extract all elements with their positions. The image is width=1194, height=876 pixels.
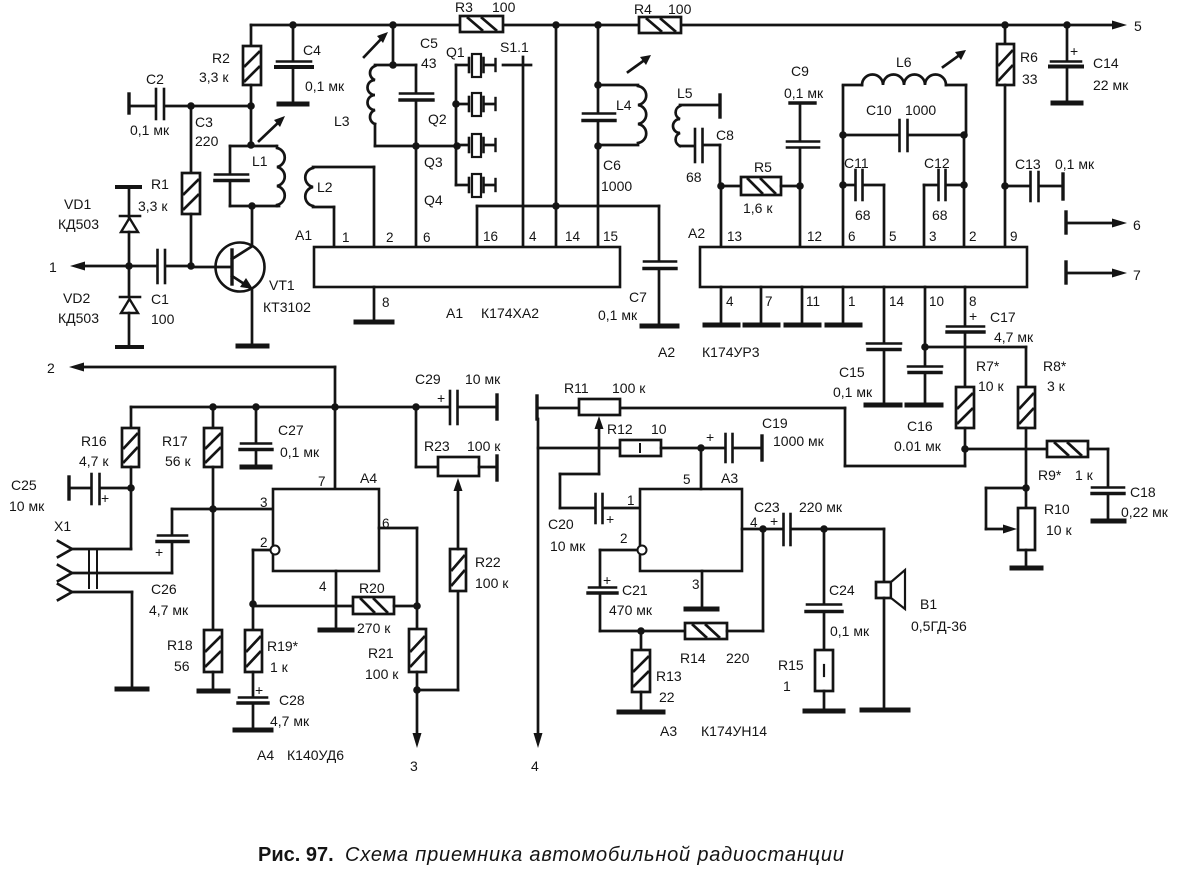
node 1 arrow: [49, 259, 129, 275]
svg-text:КТ3102: КТ3102: [263, 299, 311, 315]
capacitor C8 68: [686, 127, 734, 186]
wire: pin10 node to R8: [925, 346, 1026, 349]
ground under R15: [805, 709, 843, 714]
diode VD1 KD503: [58, 187, 140, 266]
node 7 terminal arrow: [1066, 262, 1141, 283]
resistor R3 100: [455, 0, 516, 32]
crystal bank common wire: [452, 65, 461, 185]
ground under A1 pin 8: [356, 320, 392, 325]
svg-text:4: 4: [529, 229, 537, 244]
svg-text:R6: R6: [1020, 49, 1038, 65]
op-amp/IC A3 K174UN14: [620, 470, 767, 739]
A3 pin3 lead: [701, 571, 704, 608]
capacitor C25 10mk: [9, 474, 131, 514]
A1 pin 8 lead: [374, 287, 390, 321]
svg-text:А3: А3: [660, 723, 677, 739]
junction R7 bottom node: [961, 445, 969, 453]
junction on top rail at C14: [1063, 21, 1071, 29]
svg-text:L4: L4: [616, 97, 632, 113]
svg-text:43: 43: [421, 55, 437, 71]
svg-text:220 мк: 220 мк: [799, 499, 843, 515]
ground under R10: [1012, 566, 1041, 571]
svg-text:6: 6: [423, 230, 431, 245]
junction VD/C1 node: [125, 262, 133, 270]
svg-text:X1: X1: [54, 518, 71, 534]
resistor R1 3,3k (C3 220 label): [138, 106, 219, 266]
svg-text:R21: R21: [368, 645, 394, 661]
capacitor C27 0,1mk: [240, 407, 320, 465]
svg-text:270 к: 270 к: [357, 620, 391, 636]
svg-text:C5: C5: [420, 35, 438, 51]
svg-text:6: 6: [848, 229, 856, 244]
svg-text:0,1 мк: 0,1 мк: [830, 623, 870, 639]
svg-text:B1: B1: [920, 596, 937, 612]
svg-text:3 к: 3 к: [1047, 378, 1066, 394]
svg-text:R3: R3: [455, 0, 473, 15]
capacitor C2 0,1mk with input stub: [129, 71, 251, 138]
svg-text:+: +: [1070, 43, 1078, 59]
svg-text:2: 2: [47, 360, 55, 376]
svg-text:C8: C8: [716, 127, 734, 143]
resistor R14 220: [641, 529, 763, 666]
svg-text:14: 14: [889, 294, 905, 309]
junction R8/R10 node: [1022, 484, 1030, 492]
resistor R22 100k: [417, 478, 509, 690]
svg-text:33: 33: [1022, 71, 1038, 87]
svg-text:4,7 к: 4,7 к: [79, 453, 109, 469]
wire: A3 pin5 lead: [700, 448, 703, 489]
resistor R5 1,6k: [721, 159, 800, 216]
svg-text:A1: A1: [446, 305, 463, 321]
svg-text:0.01 мк: 0.01 мк: [894, 438, 942, 454]
capacitor C18 0,22mk: [1092, 449, 1169, 520]
resistor R9* 1k: [965, 441, 1108, 483]
junction R12/C19/pin5 node: [697, 444, 705, 452]
capacitor C29 10mk: [415, 371, 501, 424]
svg-text:C11: C11: [844, 155, 869, 171]
svg-text:R16: R16: [81, 433, 107, 449]
svg-text:0,5ГД-36: 0,5ГД-36: [911, 618, 967, 634]
svg-text:R23: R23: [424, 438, 450, 454]
wire: A2 pin2 lead: [960, 135, 968, 247]
svg-text:220: 220: [195, 133, 219, 149]
svg-text:9: 9: [1010, 229, 1018, 244]
svg-text:16: 16: [483, 229, 498, 244]
ground under A2 pin4: [705, 323, 738, 328]
svg-text:К174УН14: К174УН14: [701, 723, 767, 739]
junction on top rail at C4: [289, 21, 297, 29]
svg-text:10 к: 10 к: [1046, 522, 1072, 538]
crystal Q4: [424, 174, 496, 208]
svg-text:L3: L3: [334, 113, 350, 129]
svg-text:11: 11: [806, 294, 820, 309]
capacitor C28 4,7mk: [238, 682, 310, 729]
svg-text:+: +: [155, 544, 163, 560]
svg-text:4,7 мк: 4,7 мк: [994, 329, 1034, 345]
wire: A4 pin6 lead: [379, 528, 417, 629]
resistor R6 33: [997, 25, 1038, 186]
svg-text:1: 1: [848, 294, 856, 309]
wire: A4 pin3 lead: [172, 505, 273, 513]
A2 pin7 lead: [760, 287, 763, 324]
resistor R2 3,3k: [199, 25, 261, 105]
svg-text:C1: C1: [151, 291, 169, 307]
ground under speaker: [862, 708, 908, 713]
node 5 arrow terminal: [1112, 21, 1127, 30]
svg-text:C15: C15: [839, 364, 865, 380]
wire: A2 pin12 lead: [799, 186, 802, 247]
svg-text:5: 5: [889, 229, 897, 244]
svg-text:C3: C3: [195, 114, 213, 130]
ground under A3 pin3: [686, 607, 717, 612]
svg-text:R17: R17: [162, 433, 188, 449]
svg-text:R14: R14: [680, 650, 706, 666]
svg-text:Q4: Q4: [424, 192, 443, 208]
svg-text:Q2: Q2: [428, 111, 447, 127]
capacitor C1 100: [129, 250, 195, 327]
svg-text:Q3: Q3: [424, 154, 443, 170]
ground under C27: [242, 465, 270, 470]
svg-text:КД503: КД503: [58, 216, 99, 232]
svg-text:A4: A4: [360, 470, 377, 486]
resistor R19* 1k: [245, 630, 299, 697]
svg-text:C24: C24: [829, 582, 855, 598]
capacitor C16 0.01mk on A2 pin10: [894, 287, 942, 454]
svg-text:5: 5: [1134, 18, 1142, 34]
resistor R21 100k: [365, 629, 426, 690]
svg-text:10 мк: 10 мк: [550, 538, 586, 554]
svg-text:C17: C17: [990, 309, 1016, 325]
svg-text:C20: C20: [548, 516, 574, 532]
svg-text:+: +: [606, 511, 614, 527]
capacitor C5 43: [400, 35, 438, 150]
svg-text:C19: C19: [762, 415, 788, 431]
resistor R4 100: [634, 1, 692, 33]
svg-text:1000: 1000: [905, 102, 936, 118]
svg-text:8: 8: [969, 294, 977, 309]
svg-text:+: +: [969, 308, 977, 324]
junction C23/C24/speaker node: [820, 525, 828, 533]
junction A2 pin12 node: [796, 182, 804, 190]
svg-text:100 к: 100 к: [365, 666, 399, 682]
inductor L2: [305, 167, 374, 207]
svg-text:C28: C28: [279, 692, 305, 708]
svg-text:КД503: КД503: [58, 310, 99, 326]
svg-text:100 к: 100 к: [467, 438, 501, 454]
A2 pin1 lead: [842, 287, 845, 324]
svg-text:А4: А4: [257, 747, 274, 763]
svg-text:1000 мк: 1000 мк: [773, 433, 825, 449]
svg-text:C23: C23: [754, 499, 780, 515]
svg-text:+: +: [770, 513, 778, 529]
svg-text:220: 220: [726, 650, 750, 666]
svg-text:A2: A2: [658, 344, 675, 360]
svg-text:14: 14: [565, 229, 581, 244]
svg-text:1: 1: [49, 259, 57, 275]
svg-text:3: 3: [929, 229, 937, 244]
inductor L1 tank with cap C3: [215, 106, 285, 210]
op-amp/IC A1 K174XA2: [295, 227, 620, 321]
wire: A2 pin5 lead: [883, 185, 886, 247]
potentiometer R23 100k: [416, 407, 501, 480]
switch S1.1 line to A1 pin4: [522, 57, 525, 247]
svg-text:3: 3: [692, 577, 700, 592]
svg-text:100 к: 100 к: [612, 380, 646, 396]
svg-text:6: 6: [1133, 217, 1141, 233]
svg-text:+: +: [101, 490, 109, 506]
svg-text:A2: A2: [688, 225, 705, 241]
svg-text:0,22 мк: 0,22 мк: [1121, 504, 1169, 520]
junction C21/R13/R14 node: [637, 627, 645, 635]
svg-text:C16: C16: [907, 418, 933, 434]
ground under X1: [117, 687, 147, 692]
capacitor C14 22mk: [1050, 25, 1129, 101]
svg-text:0,1 мк: 0,1 мк: [784, 85, 824, 101]
svg-text:10: 10: [651, 421, 667, 437]
junction A2 pin9 node: [1001, 182, 1009, 190]
svg-text:4,7 мк: 4,7 мк: [149, 602, 189, 618]
svg-text:12: 12: [807, 229, 822, 244]
ground under C16: [907, 403, 941, 408]
A2 pin11 lead: [801, 287, 804, 324]
node 6 terminal arrow: [1066, 212, 1141, 233]
junction R21 bottom node: [413, 686, 421, 694]
ground under C18: [1093, 519, 1124, 524]
svg-text:L1: L1: [252, 153, 268, 169]
resistor R16 4,7k: [79, 407, 139, 549]
capacitor C13 0,1mk: [1005, 156, 1095, 201]
ground under A2 pin11: [786, 323, 819, 328]
svg-text:R22: R22: [475, 554, 501, 570]
svg-text:C10: C10: [866, 102, 892, 118]
svg-text:22 мк: 22 мк: [1093, 77, 1129, 93]
svg-text:C25: C25: [11, 477, 37, 493]
svg-text:10: 10: [929, 294, 944, 309]
op-amp A4 K140UD6: [257, 470, 390, 763]
svg-text:Рис. 97.: Рис. 97.: [258, 844, 334, 866]
svg-text:R20: R20: [359, 580, 385, 596]
ground under C28: [235, 728, 271, 733]
svg-text:R4: R4: [634, 1, 652, 17]
svg-text:VT1: VT1: [269, 277, 295, 293]
svg-text:100: 100: [668, 1, 692, 17]
svg-text:2: 2: [386, 230, 394, 245]
svg-text:0,1 мк: 0,1 мк: [130, 122, 170, 138]
resistor R20 270k: [253, 580, 417, 636]
wire: A2 pin6 lead: [839, 135, 847, 247]
wire: bias bus: [131, 403, 420, 411]
svg-text:1 к: 1 к: [1075, 467, 1094, 483]
svg-text:1,6 к: 1,6 к: [743, 200, 773, 216]
svg-text:3: 3: [410, 758, 418, 774]
svg-text:470 мк: 470 мк: [609, 602, 653, 618]
svg-text:L2: L2: [317, 179, 333, 195]
ground under C15: [866, 403, 900, 408]
junction on top rail at pin14 line: [552, 21, 560, 29]
junction A2 pin13 node: [717, 182, 725, 190]
junction A3 pin4 node: [742, 525, 783, 533]
svg-text:100: 100: [151, 311, 175, 327]
junction C25/R16 node: [127, 484, 135, 492]
wire: A1 pin2 lead: [373, 167, 376, 247]
wire: A1 pin6 lead: [415, 146, 418, 247]
svg-text:C14: C14: [1093, 55, 1119, 71]
ground under R18: [199, 689, 228, 694]
svg-text:10 мк: 10 мк: [465, 371, 501, 387]
capacitor C17 4,7mk on A2 pin8: [947, 287, 1034, 387]
svg-text:0,1 мк: 0,1 мк: [1055, 156, 1095, 172]
svg-text:К174УР3: К174УР3: [702, 344, 760, 360]
svg-text:A1: A1: [295, 227, 312, 243]
wire: A2 pin3 lead: [923, 185, 926, 247]
svg-text:10 мк: 10 мк: [9, 498, 45, 514]
svg-text:3,3 к: 3,3 к: [199, 69, 229, 85]
capacitor C24 0,1mk: [806, 529, 870, 650]
svg-text:R8*: R8*: [1043, 358, 1067, 374]
capacitor C6 1000: [583, 85, 632, 194]
wire: R11 output to R7 node: [620, 408, 965, 466]
svg-text:R7*: R7*: [976, 358, 1000, 374]
svg-text:A3: A3: [721, 470, 738, 486]
inductor L3: [334, 25, 457, 146]
potentiometer R11 100k volume: [537, 380, 646, 474]
ground under C7: [642, 324, 677, 329]
ground under C4: [279, 102, 307, 107]
wire: A1 pin1 lead: [333, 207, 336, 247]
svg-text:R9*: R9*: [1038, 467, 1062, 483]
svg-text:3: 3: [260, 495, 268, 510]
crystal Q1: [446, 44, 496, 77]
wire: A2 pin13 lead: [720, 186, 723, 247]
svg-text:68: 68: [686, 169, 702, 185]
wire: A2 pin9 lead: [1004, 186, 1007, 247]
svg-text:4: 4: [726, 294, 734, 309]
capacitor C7 0,1mk: [598, 206, 676, 324]
capacitor C20 10mk: [548, 494, 640, 554]
ground under A4 pin4: [320, 628, 352, 633]
capacitor C9 0,1mk: [784, 63, 824, 186]
svg-text:R18: R18: [167, 637, 193, 653]
wire: A1 pin14 line from top rail: [555, 25, 558, 247]
junction on top rail at L4 tank: [594, 21, 602, 29]
svg-text:Q1: Q1: [446, 44, 465, 60]
svg-text:R1: R1: [151, 176, 169, 192]
svg-text:C27: C27: [278, 422, 304, 438]
resistor R12 10: [538, 421, 701, 456]
capacitor C11 68: [843, 155, 884, 223]
svg-text:4: 4: [319, 579, 327, 594]
svg-text:L6: L6: [896, 54, 912, 70]
capacitor C21 470mk: [588, 572, 653, 631]
node 2 arrow and wire to A4 pin7: [47, 360, 339, 489]
capacitor C23 220mk: [754, 499, 843, 545]
capacitor C15 0,1mk on A2 pin14: [833, 287, 901, 404]
ground under VT1: [238, 344, 267, 349]
svg-text:C12: C12: [924, 155, 950, 171]
svg-text:1000: 1000: [601, 178, 632, 194]
svg-text:Схема приемника автомобильной: Схема приемника автомобильной радиостанц…: [345, 844, 845, 866]
connector X1: [54, 518, 172, 687]
junction C2/C3 node: [187, 102, 195, 110]
resistor R7* 10k: [956, 358, 1004, 449]
svg-text:R11: R11: [564, 380, 589, 396]
svg-text:C21: C21: [622, 582, 648, 598]
wire: A4 pin2 lead: [249, 550, 270, 630]
capacitor C10 1000: [839, 102, 968, 151]
svg-text:C4: C4: [303, 42, 321, 58]
ground under R13: [619, 710, 663, 715]
transistor VT1 KT3102: [191, 206, 311, 344]
svg-text:10 к: 10 к: [978, 378, 1004, 394]
ground under C14: [1053, 101, 1081, 106]
svg-text:C6: C6: [603, 157, 621, 173]
svg-text:+: +: [437, 390, 445, 406]
svg-text:15: 15: [603, 229, 618, 244]
junction on top rail at R6: [1001, 21, 1009, 29]
inductor L6: [843, 50, 966, 135]
potentiometer R10 10k: [986, 488, 1072, 567]
inductor L5 with antenna stub: [673, 85, 720, 146]
svg-text:1: 1: [342, 230, 350, 245]
resistor R13 22: [632, 631, 682, 711]
svg-text:R12: R12: [607, 421, 633, 437]
svg-text:22: 22: [659, 689, 675, 705]
wire: +supply top rail (node 5): [251, 24, 460, 27]
junction R20/pin6 node: [413, 602, 421, 610]
svg-text:0,1 мк: 0,1 мк: [280, 444, 320, 460]
svg-text:R5: R5: [754, 159, 772, 175]
svg-text:0,1 мк: 0,1 мк: [598, 307, 638, 323]
resistor R17 56k: [162, 407, 222, 630]
svg-text:R13: R13: [656, 668, 682, 684]
ground under A2 pin1: [827, 323, 860, 328]
resistor R18 56: [167, 630, 222, 689]
svg-text:0,1 мк: 0,1 мк: [305, 78, 345, 94]
svg-text:8: 8: [382, 295, 390, 310]
svg-text:C13: C13: [1015, 156, 1041, 172]
resistor R8* 3k: [1018, 347, 1067, 488]
svg-text:4,7 мк: 4,7 мк: [270, 713, 310, 729]
capacitor C19 1000mk: [701, 415, 825, 462]
svg-text:3,3 к: 3,3 к: [138, 198, 168, 214]
svg-text:К174ХА2: К174ХА2: [481, 305, 539, 321]
svg-text:VD2: VD2: [63, 290, 90, 306]
svg-text:+: +: [603, 572, 611, 588]
svg-text:7: 7: [318, 474, 326, 489]
svg-text:+: +: [706, 429, 714, 445]
svg-text:C26: C26: [151, 581, 177, 597]
svg-text:VD1: VD1: [64, 196, 91, 212]
wire: A1 top bus: [477, 202, 659, 247]
crystal Q3: [424, 134, 496, 170]
junction R2 bottom node: [247, 102, 255, 110]
op-amp/IC A2 K174UR3: [658, 225, 1027, 360]
diode VD2 KD503: [58, 266, 142, 347]
svg-text:7: 7: [1133, 267, 1141, 283]
svg-text:56 к: 56 к: [165, 453, 191, 469]
svg-text:C18: C18: [1130, 484, 1156, 500]
svg-text:4: 4: [531, 758, 539, 774]
svg-text:68: 68: [855, 207, 871, 223]
svg-text:R10: R10: [1044, 501, 1070, 517]
svg-text:1 к: 1 к: [270, 659, 289, 675]
svg-text:R19*: R19*: [267, 638, 299, 654]
capacitor C4 0,1mk: [276, 25, 345, 102]
svg-text:L5: L5: [677, 85, 693, 101]
svg-text:13: 13: [727, 229, 742, 244]
svg-text:100: 100: [492, 0, 516, 15]
svg-text:2: 2: [969, 229, 977, 244]
